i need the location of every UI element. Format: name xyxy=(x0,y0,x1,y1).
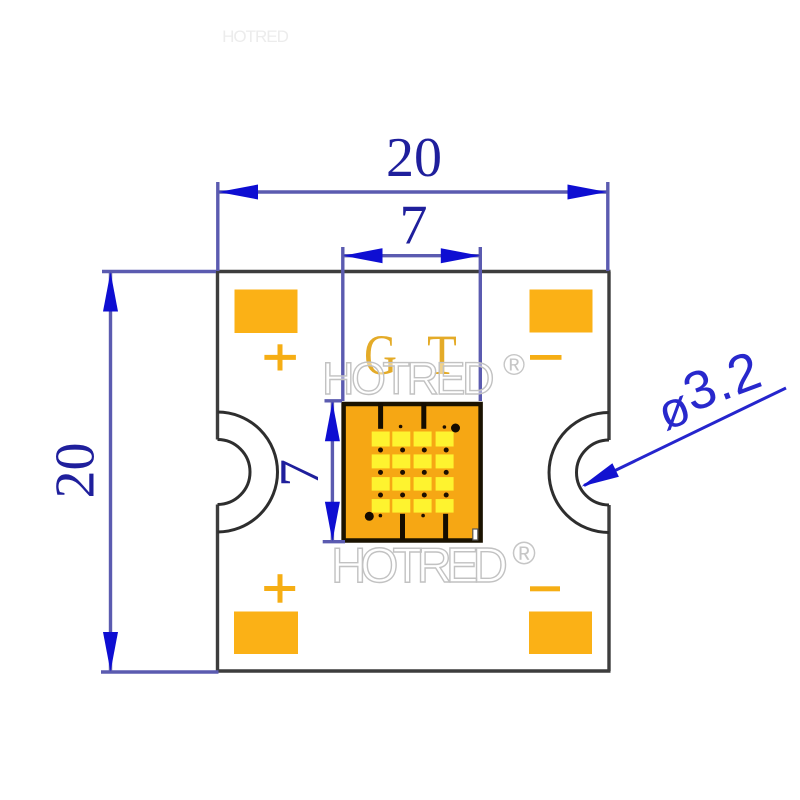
left plated half-hole outer arc xyxy=(218,412,278,532)
hole diameter callout 3.2 xyxy=(582,340,787,487)
svg-text:®: ® xyxy=(503,349,525,382)
right hole inner arc xyxy=(577,440,610,505)
dimension 20 top xyxy=(218,127,608,271)
dimension 20 left xyxy=(45,272,219,673)
svg-text:HOTRED: HOTRED xyxy=(222,27,289,46)
cathode dot top-right xyxy=(451,424,460,433)
emitter bottom slot 2 xyxy=(443,514,448,540)
emitter die grid 4x4 xyxy=(372,432,454,513)
board outline (20x20 PCB) xyxy=(216,272,611,672)
watermark HOTRED upper xyxy=(322,349,525,404)
emitter top slot 2 xyxy=(421,403,426,429)
left hole inner arc xyxy=(218,440,251,505)
svg-text:7: 7 xyxy=(269,459,331,487)
svg-text:HOTRED: HOTRED xyxy=(322,353,493,404)
emitter top slot 1 xyxy=(378,403,383,429)
svg-text:7: 7 xyxy=(400,195,428,257)
pad bottom-right xyxy=(529,612,592,655)
pad top-right xyxy=(530,290,593,333)
polarity - top-right xyxy=(530,355,562,360)
svg-text:HOTRED: HOTRED xyxy=(331,539,507,593)
watermark HOTRED lower xyxy=(331,535,536,593)
anode dot bottom-left xyxy=(365,512,374,521)
dimension 7 vertical (emitter) xyxy=(269,401,345,542)
polarity + top-left xyxy=(264,344,296,370)
bond dots between rows xyxy=(378,425,449,518)
LED emitter body xyxy=(344,403,481,541)
pad top-left xyxy=(235,290,298,334)
dimension 7 top xyxy=(343,195,481,402)
emitter bottom slot 1 xyxy=(400,514,405,540)
right plated half-hole outer arc xyxy=(549,413,609,533)
pad bottom-left xyxy=(234,612,298,655)
svg-text:20: 20 xyxy=(386,127,442,189)
svg-text:20: 20 xyxy=(45,443,107,499)
polarity + bottom-left xyxy=(264,574,295,603)
corner index notch xyxy=(473,529,478,540)
svg-text:®: ® xyxy=(512,535,536,571)
polarity - bottom-right xyxy=(530,586,560,591)
